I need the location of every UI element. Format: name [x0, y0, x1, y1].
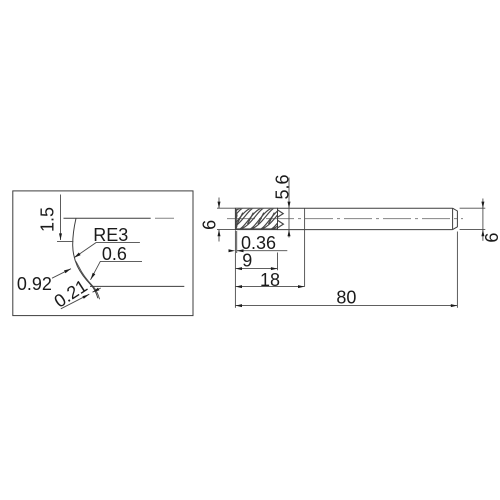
- svg-text:0.6: 0.6: [102, 244, 127, 264]
- dimension 9: [235, 251, 277, 271]
- dimension 6 (right, shank diameter): [460, 199, 500, 243]
- end teeth arcs (left face): [235, 213, 237, 229]
- dimension 0.6 with leader: [91, 244, 143, 280]
- dimension 0.21 (tilted): [51, 276, 101, 312]
- dimension 18: [235, 270, 304, 290]
- extension line (head left edge, shared): [234, 230, 236, 307]
- svg-text:0.92: 0.92: [17, 274, 52, 294]
- extension line (0.36 second): [236, 231, 238, 253]
- shank outline: [278, 208, 453, 229]
- svg-text:RE3: RE3: [93, 225, 128, 245]
- dimension 5.6 (neck diameter): [272, 174, 292, 237]
- svg-text:6: 6: [200, 220, 220, 230]
- svg-text:80: 80: [336, 288, 356, 308]
- dimension 6 (left, mill diameter): [200, 198, 235, 242]
- head bottom edge reinforcement: [236, 228, 277, 230]
- centerline (detail view top face): [64, 217, 175, 219]
- neck/shank junction line + 18 extension: [304, 208, 306, 286]
- dimension 0.36: [229, 233, 288, 253]
- main view centerline: [227, 218, 463, 220]
- svg-text:6: 6: [482, 233, 500, 243]
- dimension 1.5: [37, 195, 73, 242]
- cutter head outline: [235, 208, 277, 229]
- profile curve (corner radius): [73, 218, 98, 298]
- head left edge reinforcement: [235, 209, 237, 229]
- profile offset curve (0.21 land): [76, 261, 100, 299]
- extension line (shank end right): [456, 232, 458, 308]
- shank end chamfer: [453, 208, 458, 229]
- svg-text:9: 9: [242, 251, 252, 271]
- bottom face line (detail view): [90, 285, 184, 287]
- dimension 0.92 with leader: [17, 269, 71, 295]
- svg-text:18: 18: [260, 270, 280, 290]
- dimension 80: [235, 288, 457, 308]
- flute run-out triangles: [278, 210, 284, 228]
- label RE3 with leader: [74, 225, 140, 258]
- svg-text:1.5: 1.5: [37, 207, 57, 232]
- extension line (flute length right): [277, 253, 279, 271]
- flutes (helical lens ribbons): [216, 208, 296, 230]
- detail view box: [13, 191, 193, 316]
- svg-text:5.6: 5.6: [272, 174, 292, 199]
